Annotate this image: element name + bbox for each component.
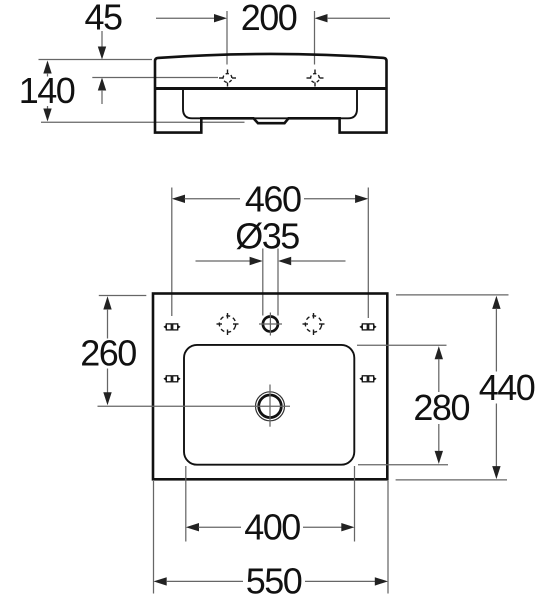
extension line: plan left edge (550) — [153, 481, 155, 594]
extension line: bowl right edge (400) — [354, 466, 356, 542]
leader line: drain centre (260) — [98, 405, 291, 407]
svg-text:460: 460 — [245, 179, 301, 220]
extension line: plan top edge (260) — [99, 295, 147, 297]
dimension 400 left arrow — [186, 523, 241, 531]
svg-text:550: 550 — [246, 560, 302, 600]
extension line: right tap hole (side view) — [314, 11, 316, 65]
plan view: left dashed tap hole — [217, 313, 239, 335]
extension line: plan bottom edge (440) — [396, 479, 507, 481]
svg-text:200: 200 — [241, 0, 297, 38]
dimension 140 upper arrow — [43, 61, 51, 77]
dimension 460 right arrow — [304, 195, 368, 203]
side view: rim mid line — [155, 87, 387, 90]
leader line: tap hole level — [92, 77, 218, 79]
side view: left tap hole symbol — [219, 70, 236, 87]
plan view: outer rim rectangle — [153, 294, 387, 480]
extension line: plan right edge (550) — [387, 481, 389, 594]
dimension 280 upper arrow — [435, 346, 443, 392]
dimension 550 left arrow — [154, 577, 244, 585]
svg-text:400: 400 — [244, 507, 300, 548]
extension line: plan top edge (440) — [396, 294, 509, 296]
plan view: faucet hole Ø35 — [259, 313, 282, 336]
extension line: right fixing hole — [367, 188, 369, 319]
dimension 550 right arrow — [305, 577, 388, 585]
dimension 260 lower arrow — [103, 369, 111, 406]
extension line: left fixing hole — [171, 188, 173, 317]
dimension Ø35 right arrow — [278, 257, 346, 265]
dimension 200 left arrow — [156, 14, 227, 22]
svg-text:Ø35: Ø35 — [235, 216, 299, 257]
plan view: fixing hole symbol bottom-right — [359, 376, 376, 382]
dimension 280 lower arrow — [435, 424, 443, 464]
extension line: basin underside level — [41, 121, 245, 123]
plan view: drain hole inner ring — [259, 395, 282, 418]
dimension 45 upper arrow — [98, 31, 106, 60]
extension line: faucet hole right — [277, 249, 279, 316]
plan view: bowl rounded rectangle — [184, 345, 354, 465]
dimension 45 lower arrow — [98, 78, 106, 105]
dimension 400 right arrow — [303, 523, 355, 531]
plan view: fixing hole symbol top-left — [163, 324, 180, 330]
dimension 260 upper arrow — [103, 296, 111, 338]
side view: right tap hole symbol — [307, 70, 324, 87]
extension line: bowl left edge (400) — [185, 466, 187, 542]
plan view: drain crosshair vertical — [269, 385, 271, 427]
dimension 140 lower arrow — [43, 106, 51, 122]
extension line: faucet hole left — [262, 249, 264, 316]
svg-text:280: 280 — [413, 387, 469, 428]
svg-text:45: 45 — [84, 0, 122, 38]
plan view: fixing hole symbol bottom-left — [163, 376, 180, 382]
dimension 440 lower arrow — [492, 404, 500, 480]
svg-text:260: 260 — [80, 333, 136, 374]
dimension 460 left arrow — [172, 195, 240, 203]
side view: bowl profile — [183, 90, 357, 119]
svg-text:440: 440 — [479, 367, 535, 408]
plan view: drain hole outer circle — [256, 392, 285, 421]
dimension 200 right arrow — [315, 14, 391, 22]
dimension 440 upper arrow — [492, 296, 500, 372]
extension line: bowl top edge (280) — [357, 344, 447, 346]
dimension Ø35 left arrow — [196, 257, 263, 265]
extension line: left tap hole (side view) — [226, 11, 228, 65]
plan view: right dashed tap hole — [303, 313, 325, 335]
side view: outer outline with feet and drain boss — [155, 54, 387, 133]
extension line: basin top edge level — [39, 59, 153, 61]
svg-text:140: 140 — [19, 70, 75, 111]
plan view: fixing hole symbol top-right — [359, 324, 376, 330]
extension line: bowl bottom edge (280) — [358, 464, 448, 466]
